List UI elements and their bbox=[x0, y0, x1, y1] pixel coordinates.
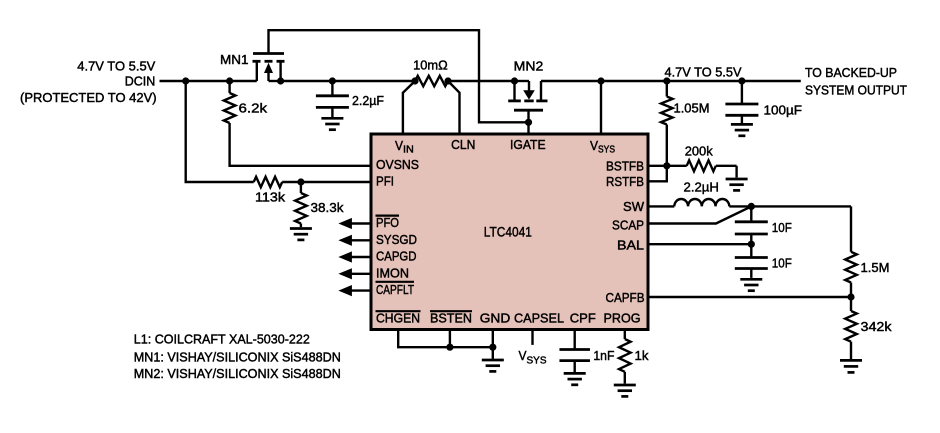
junction 10mOhm left bbox=[411, 77, 418, 84]
svg-text:SCAP: SCAP bbox=[612, 218, 644, 233]
capacitor 100uF bbox=[741, 81, 743, 104]
svg-text:IN: IN bbox=[403, 144, 414, 155]
wire inductor to supercap node bbox=[729, 205, 851, 207]
svg-text:38.3k: 38.3k bbox=[311, 200, 344, 215]
svg-text:CLN: CLN bbox=[451, 137, 475, 152]
svg-text:(PROTECTED TO 42V): (PROTECTED TO 42V) bbox=[20, 90, 157, 105]
svg-text:PROG: PROG bbox=[604, 311, 641, 326]
wire kelvin sense to VIN pin bbox=[403, 81, 415, 133]
junction VSYS pin drop bbox=[597, 77, 604, 84]
wire supercap node to 1.5M bbox=[850, 206, 852, 251]
transistor MN2 N-channel MOSFET bbox=[508, 81, 547, 133]
resistor 1.5M bbox=[845, 252, 857, 283]
ground 342k bbox=[840, 359, 862, 362]
wire rail 10mOhm to MN2 drain bbox=[448, 80, 515, 82]
resistor 1k bbox=[619, 339, 631, 372]
svg-text:CAPFB: CAPFB bbox=[606, 290, 645, 305]
wire DCIN to PFI divider bbox=[186, 81, 254, 182]
wire PROG down bbox=[624, 331, 626, 339]
svg-text:LTC4041: LTC4041 bbox=[484, 224, 532, 239]
wire CAPFB pin bbox=[650, 296, 852, 298]
resistor 1.05M bbox=[666, 81, 668, 97]
svg-text:1.05M: 1.05M bbox=[674, 101, 710, 116]
svg-text:10F: 10F bbox=[772, 220, 792, 235]
ground 2.2uF bbox=[321, 117, 343, 120]
pin flag SYSGD arrow bbox=[338, 235, 352, 246]
wire BSTFB pin bbox=[650, 165, 667, 167]
svg-text:V: V bbox=[395, 138, 403, 153]
junction DCIN / 6.2k bbox=[226, 77, 233, 84]
pin flag PFO arrow bbox=[338, 218, 352, 229]
svg-text:1.5M: 1.5M bbox=[861, 260, 890, 275]
svg-text:SYS: SYS bbox=[598, 144, 615, 155]
svg-text:RSTFB: RSTFB bbox=[606, 174, 644, 189]
svg-text:2.2µF: 2.2µF bbox=[352, 93, 384, 108]
op chip LTC4041 body bbox=[371, 134, 648, 330]
capacitor 1nF bbox=[559, 348, 590, 351]
pin flag IMON arrow bbox=[338, 268, 352, 279]
ground 100uF bbox=[731, 123, 753, 126]
resistor 113k bbox=[254, 177, 283, 187]
svg-text:BSTEN: BSTEN bbox=[430, 311, 472, 326]
wire CPF down bbox=[574, 331, 576, 349]
transistor MN1 N-channel MOSFET bbox=[253, 54, 285, 82]
svg-text:L1: COILCRAFT XAL-5030-222: L1: COILCRAFT XAL-5030-222 bbox=[134, 332, 310, 347]
ground 1k bbox=[614, 384, 636, 387]
svg-text:SYSGD: SYSGD bbox=[376, 232, 417, 247]
resistor 6.2k bbox=[228, 81, 230, 93]
ground supercap bbox=[740, 278, 762, 281]
svg-text:4.7V TO 5.5V: 4.7V TO 5.5V bbox=[665, 65, 742, 80]
capacitor 10F bottom bbox=[750, 244, 752, 257]
svg-text:BAL: BAL bbox=[617, 238, 644, 253]
junction BSTEN / ground run bbox=[446, 344, 453, 351]
svg-text:1nF: 1nF bbox=[593, 348, 614, 363]
wire VSYS pin drop bbox=[600, 81, 602, 133]
ground 200k bbox=[726, 178, 748, 181]
wire CAPSEL to VSYS bbox=[531, 331, 533, 345]
svg-text:CAPFLT: CAPFLT bbox=[376, 282, 414, 297]
junction GND / ground run bbox=[489, 344, 496, 351]
svg-text:IMON: IMON bbox=[376, 265, 409, 280]
svg-text:TO BACKED-UP: TO BACKED-UP bbox=[805, 65, 897, 80]
svg-text:DCIN: DCIN bbox=[125, 74, 156, 89]
svg-text:CAPSEL: CAPSEL bbox=[514, 311, 564, 326]
wire GND pin down bbox=[492, 331, 494, 347]
svg-text:CPF: CPF bbox=[570, 311, 596, 326]
inductor L1 2.2uH bbox=[674, 199, 729, 206]
svg-text:OVSNS: OVSNS bbox=[376, 157, 419, 172]
junction MN1 source on rail bbox=[277, 77, 284, 84]
wire SW pin to inductor bbox=[650, 205, 675, 207]
svg-text:BSTFB: BSTFB bbox=[606, 158, 644, 173]
svg-text:MN2: VISHAY/SILICONIX SiS488DN: MN2: VISHAY/SILICONIX SiS488DN bbox=[134, 366, 341, 381]
junction PFI divider bbox=[297, 178, 304, 185]
svg-text:200k: 200k bbox=[685, 143, 713, 158]
pin label CAPFLT with overline bbox=[376, 281, 415, 283]
svg-text:CHGEN: CHGEN bbox=[376, 311, 420, 326]
resistor 200k bbox=[667, 165, 687, 167]
junction gates to IGATE bbox=[525, 119, 532, 126]
wire CHGEN to ground run bbox=[398, 331, 493, 347]
junction SW / supercap top bbox=[748, 203, 755, 210]
svg-text:10F: 10F bbox=[772, 256, 792, 271]
wire BSTEN down bbox=[449, 331, 451, 347]
ground GND pin bbox=[482, 359, 504, 362]
junction supercap midpoint BAL bbox=[748, 241, 755, 248]
pin flag CAPFLT arrow bbox=[338, 285, 352, 296]
wire VSYS rail MN2 source to output bbox=[541, 80, 801, 82]
svg-text:100µF: 100µF bbox=[764, 103, 803, 118]
ground 1nF bbox=[564, 372, 586, 375]
junction CAPFB divider bbox=[847, 293, 854, 300]
svg-text:PFO: PFO bbox=[376, 215, 399, 230]
svg-text:113k: 113k bbox=[255, 190, 285, 205]
junction rail / 100uF bbox=[738, 77, 745, 84]
pin label PFO with overline bbox=[376, 215, 400, 217]
wire MN1/MN2 gate loop to IGATE bbox=[269, 30, 529, 122]
junction DCIN / PFI divider bbox=[182, 77, 189, 84]
svg-text:MN1: VISHAY/SILICONIX SiS488DN: MN1: VISHAY/SILICONIX SiS488DN bbox=[134, 350, 341, 365]
wire RSTFB pin to BSTFB node bbox=[650, 166, 667, 182]
svg-text:IGATE: IGATE bbox=[510, 137, 546, 152]
wire SCAP pin diagonal bbox=[650, 206, 752, 223]
junction MN2 drain on rail bbox=[511, 77, 518, 84]
svg-text:GND: GND bbox=[480, 311, 511, 326]
svg-text:SW: SW bbox=[623, 199, 645, 214]
svg-text:MN2: MN2 bbox=[514, 58, 544, 73]
junction rail / 1.05M bbox=[663, 77, 670, 84]
svg-text:PFI: PFI bbox=[376, 174, 394, 189]
svg-text:SYSTEM OUTPUT: SYSTEM OUTPUT bbox=[805, 83, 907, 98]
svg-text:6.2k: 6.2k bbox=[239, 101, 268, 116]
pin label BSTEN with overline bbox=[430, 310, 472, 312]
svg-text:4.7V TO 5.5V: 4.7V TO 5.5V bbox=[77, 59, 155, 74]
resistor 38.3k bbox=[300, 182, 302, 193]
pin flag CAPGD arrow bbox=[338, 251, 352, 262]
svg-text:V: V bbox=[519, 348, 527, 363]
wire BAL pin bbox=[650, 243, 752, 245]
wire DCIN rail from input to MN1 drain bbox=[160, 80, 257, 82]
wire 6.2k to OVSNS pin bbox=[230, 123, 370, 166]
junction rail / 2.2uF bbox=[329, 77, 336, 84]
wire rail MN1 source to 10mOhm bbox=[281, 80, 415, 82]
wire 113k to PFI pin bbox=[282, 181, 369, 183]
svg-text:1k: 1k bbox=[635, 348, 649, 363]
capacitor 2.2uF bbox=[331, 81, 333, 96]
svg-text:V: V bbox=[590, 138, 598, 153]
pin label CHGEN with overline bbox=[376, 310, 421, 312]
wire kelvin sense to CLN pin bbox=[448, 81, 460, 133]
resistor 10mOhm sense bbox=[415, 76, 448, 86]
svg-text:2.2µH: 2.2µH bbox=[684, 180, 719, 195]
junction 10mOhm right bbox=[444, 77, 451, 84]
svg-text:342k: 342k bbox=[861, 319, 892, 334]
resistor 342k bbox=[850, 297, 852, 311]
capacitor 10F top bbox=[750, 206, 752, 221]
svg-text:SYS: SYS bbox=[527, 356, 547, 367]
svg-text:CAPGD: CAPGD bbox=[376, 249, 417, 264]
svg-text:10mΩ: 10mΩ bbox=[413, 58, 448, 73]
svg-text:MN1: MN1 bbox=[220, 52, 249, 67]
ground 38.3k bbox=[290, 227, 312, 230]
junction BSTFB RSTFB 1.05M bbox=[663, 162, 670, 169]
